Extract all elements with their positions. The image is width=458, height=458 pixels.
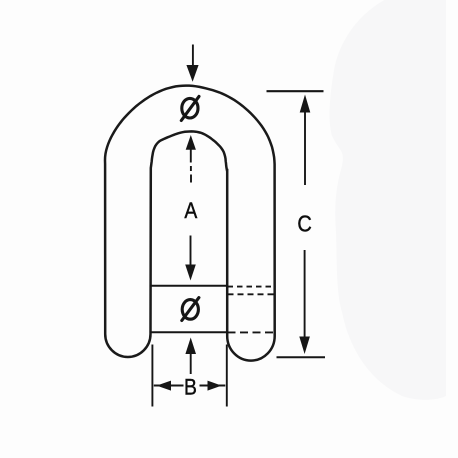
svg-text:C: C (297, 210, 311, 237)
svg-text:B: B (184, 375, 197, 399)
svg-text:A: A (184, 199, 197, 223)
